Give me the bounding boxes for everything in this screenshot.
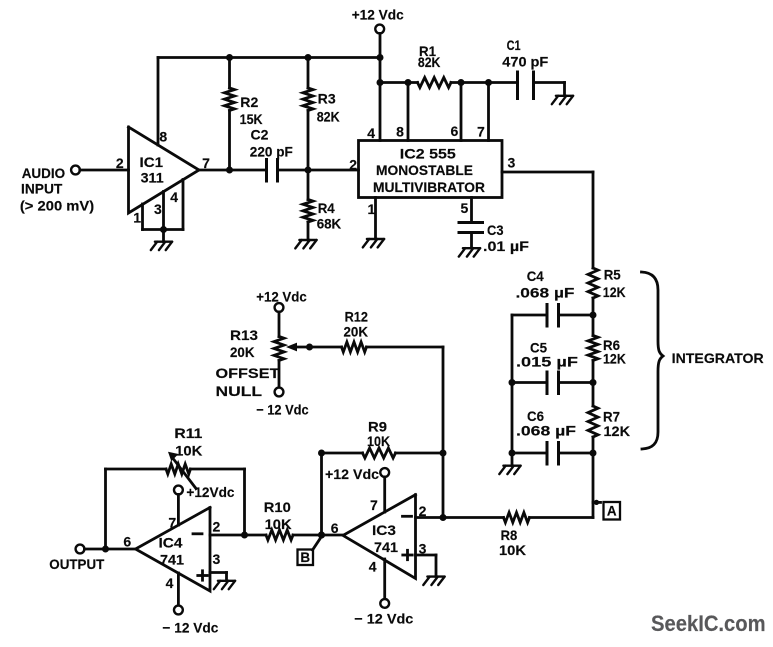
svg-text:12K: 12K [604,423,631,439]
svg-text:3: 3 [508,155,516,171]
svg-text:IC1: IC1 [140,154,164,170]
svg-text:741: 741 [374,539,398,555]
svg-text:INTEGRATOR: INTEGRATOR [672,350,764,366]
svg-text:+12 Vdc: +12 Vdc [352,7,404,23]
svg-text:741: 741 [160,552,184,568]
svg-text:.068 µF: .068 µF [516,285,576,301]
svg-text:+12Vdc: +12Vdc [186,484,234,500]
svg-text:2: 2 [213,519,221,535]
svg-text:C4: C4 [527,268,544,284]
svg-text:SeekIC.com: SeekIC.com [651,611,766,636]
svg-text:7: 7 [168,515,176,531]
svg-text:R4: R4 [318,200,335,216]
svg-text:10K: 10K [175,442,202,458]
svg-text:20K: 20K [344,323,369,339]
svg-text:− 12 Vdc: − 12 Vdc [354,611,413,627]
svg-text:10K: 10K [499,542,526,558]
svg-text:2: 2 [419,503,427,519]
svg-text:IC3: IC3 [372,522,396,538]
svg-text:R10: R10 [264,499,291,515]
svg-text:B: B [300,550,310,565]
svg-text:R8: R8 [501,527,518,543]
svg-text:68K: 68K [317,216,342,232]
svg-text:C3: C3 [487,222,504,238]
svg-text:R11: R11 [174,425,202,441]
svg-text:− 12 Vdc: − 12 Vdc [162,620,218,636]
svg-text:3: 3 [213,551,221,567]
svg-text:12K: 12K [603,351,626,367]
svg-text:12K: 12K [603,284,626,300]
svg-text:7: 7 [477,124,485,140]
svg-text:10K: 10K [265,516,292,532]
svg-text:2: 2 [116,155,124,171]
svg-text:8: 8 [396,124,404,140]
svg-text:7: 7 [202,155,210,171]
svg-text:7: 7 [370,497,378,513]
svg-text:4: 4 [367,125,375,141]
svg-text:82K: 82K [317,108,340,124]
svg-text:.015 µF: .015 µF [516,354,579,370]
svg-text:IC2 555: IC2 555 [400,146,456,162]
svg-text:OFFSET: OFFSET [216,365,281,381]
svg-text:8: 8 [159,129,167,145]
svg-text:10K: 10K [367,433,390,449]
svg-text:MONOSTABLE: MONOSTABLE [376,162,473,178]
svg-text:R3: R3 [318,91,336,107]
svg-text:R5: R5 [604,267,621,283]
svg-text:NULL: NULL [216,383,263,399]
svg-text:1: 1 [133,209,141,225]
svg-text:470 pF: 470 pF [502,54,548,70]
svg-text:AUDIO: AUDIO [22,165,66,181]
svg-text:R13: R13 [230,327,258,343]
svg-text:3: 3 [154,201,162,217]
svg-text:R9: R9 [368,418,387,434]
svg-text:OUTPUT: OUTPUT [49,556,104,572]
svg-text:6: 6 [451,123,459,139]
svg-text:5: 5 [461,200,469,216]
svg-text:6: 6 [123,533,131,549]
svg-text:82K: 82K [418,54,441,70]
svg-text:(> 200 mV): (> 200 mV) [20,198,94,214]
svg-text:C2: C2 [251,127,269,143]
svg-text:+12 Vdc: +12 Vdc [325,466,379,482]
svg-text:3: 3 [419,541,427,557]
svg-text:220 pF: 220 pF [250,144,293,160]
svg-text:15K: 15K [240,111,263,127]
svg-text:INPUT: INPUT [21,181,63,197]
svg-text:IC4: IC4 [159,535,183,551]
svg-text:6: 6 [331,520,339,536]
svg-text:.068 µF: .068 µF [516,423,577,439]
svg-text:A: A [607,503,617,518]
svg-text:4: 4 [166,575,174,591]
svg-text:− 12 Vdc: − 12 Vdc [256,402,309,418]
svg-text:4: 4 [369,559,377,575]
svg-text:MULTIVIBRATOR: MULTIVIBRATOR [373,179,485,195]
svg-text:20K: 20K [230,344,255,360]
svg-text:C1: C1 [507,37,521,53]
svg-text:+12 Vdc: +12 Vdc [256,289,307,305]
svg-text:311: 311 [141,170,164,186]
svg-text:R12: R12 [345,309,369,325]
svg-text:.01 µF: .01 µF [483,238,529,254]
svg-text:R2: R2 [240,94,258,110]
svg-text:1: 1 [368,201,376,217]
svg-text:2: 2 [349,157,357,173]
svg-text:4: 4 [170,189,178,205]
